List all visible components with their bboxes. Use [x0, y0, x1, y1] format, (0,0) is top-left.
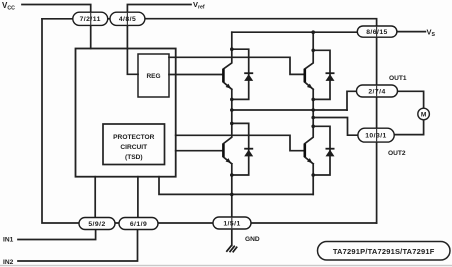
svg-text:REG: REG [146, 73, 160, 80]
svg-text:1/5/1: 1/5/1 [223, 220, 240, 227]
svg-text:(TSD): (TSD) [125, 154, 143, 161]
svg-text:8/6/15: 8/6/15 [366, 29, 388, 36]
svg-text:4/8/5: 4/8/5 [119, 16, 136, 23]
svg-text:GND: GND [245, 236, 260, 243]
svg-text:IN1: IN1 [3, 237, 14, 244]
svg-text:6/1/9: 6/1/9 [130, 221, 147, 228]
svg-text:2/7/4: 2/7/4 [368, 88, 385, 95]
svg-text:5/9/2: 5/9/2 [88, 221, 105, 228]
svg-text:OUT1: OUT1 [389, 75, 407, 82]
svg-text:PROTECTOR: PROTECTOR [113, 134, 155, 141]
svg-text:TA7291P/TA7291S/TA7291F: TA7291P/TA7291S/TA7291F [333, 247, 435, 256]
svg-text:7/2/11: 7/2/11 [80, 16, 101, 23]
svg-text:OUT2: OUT2 [388, 150, 406, 157]
svg-text:M: M [421, 112, 427, 119]
svg-text:10/3/1: 10/3/1 [365, 133, 387, 140]
svg-text:CIRCUIT: CIRCUIT [120, 144, 147, 151]
